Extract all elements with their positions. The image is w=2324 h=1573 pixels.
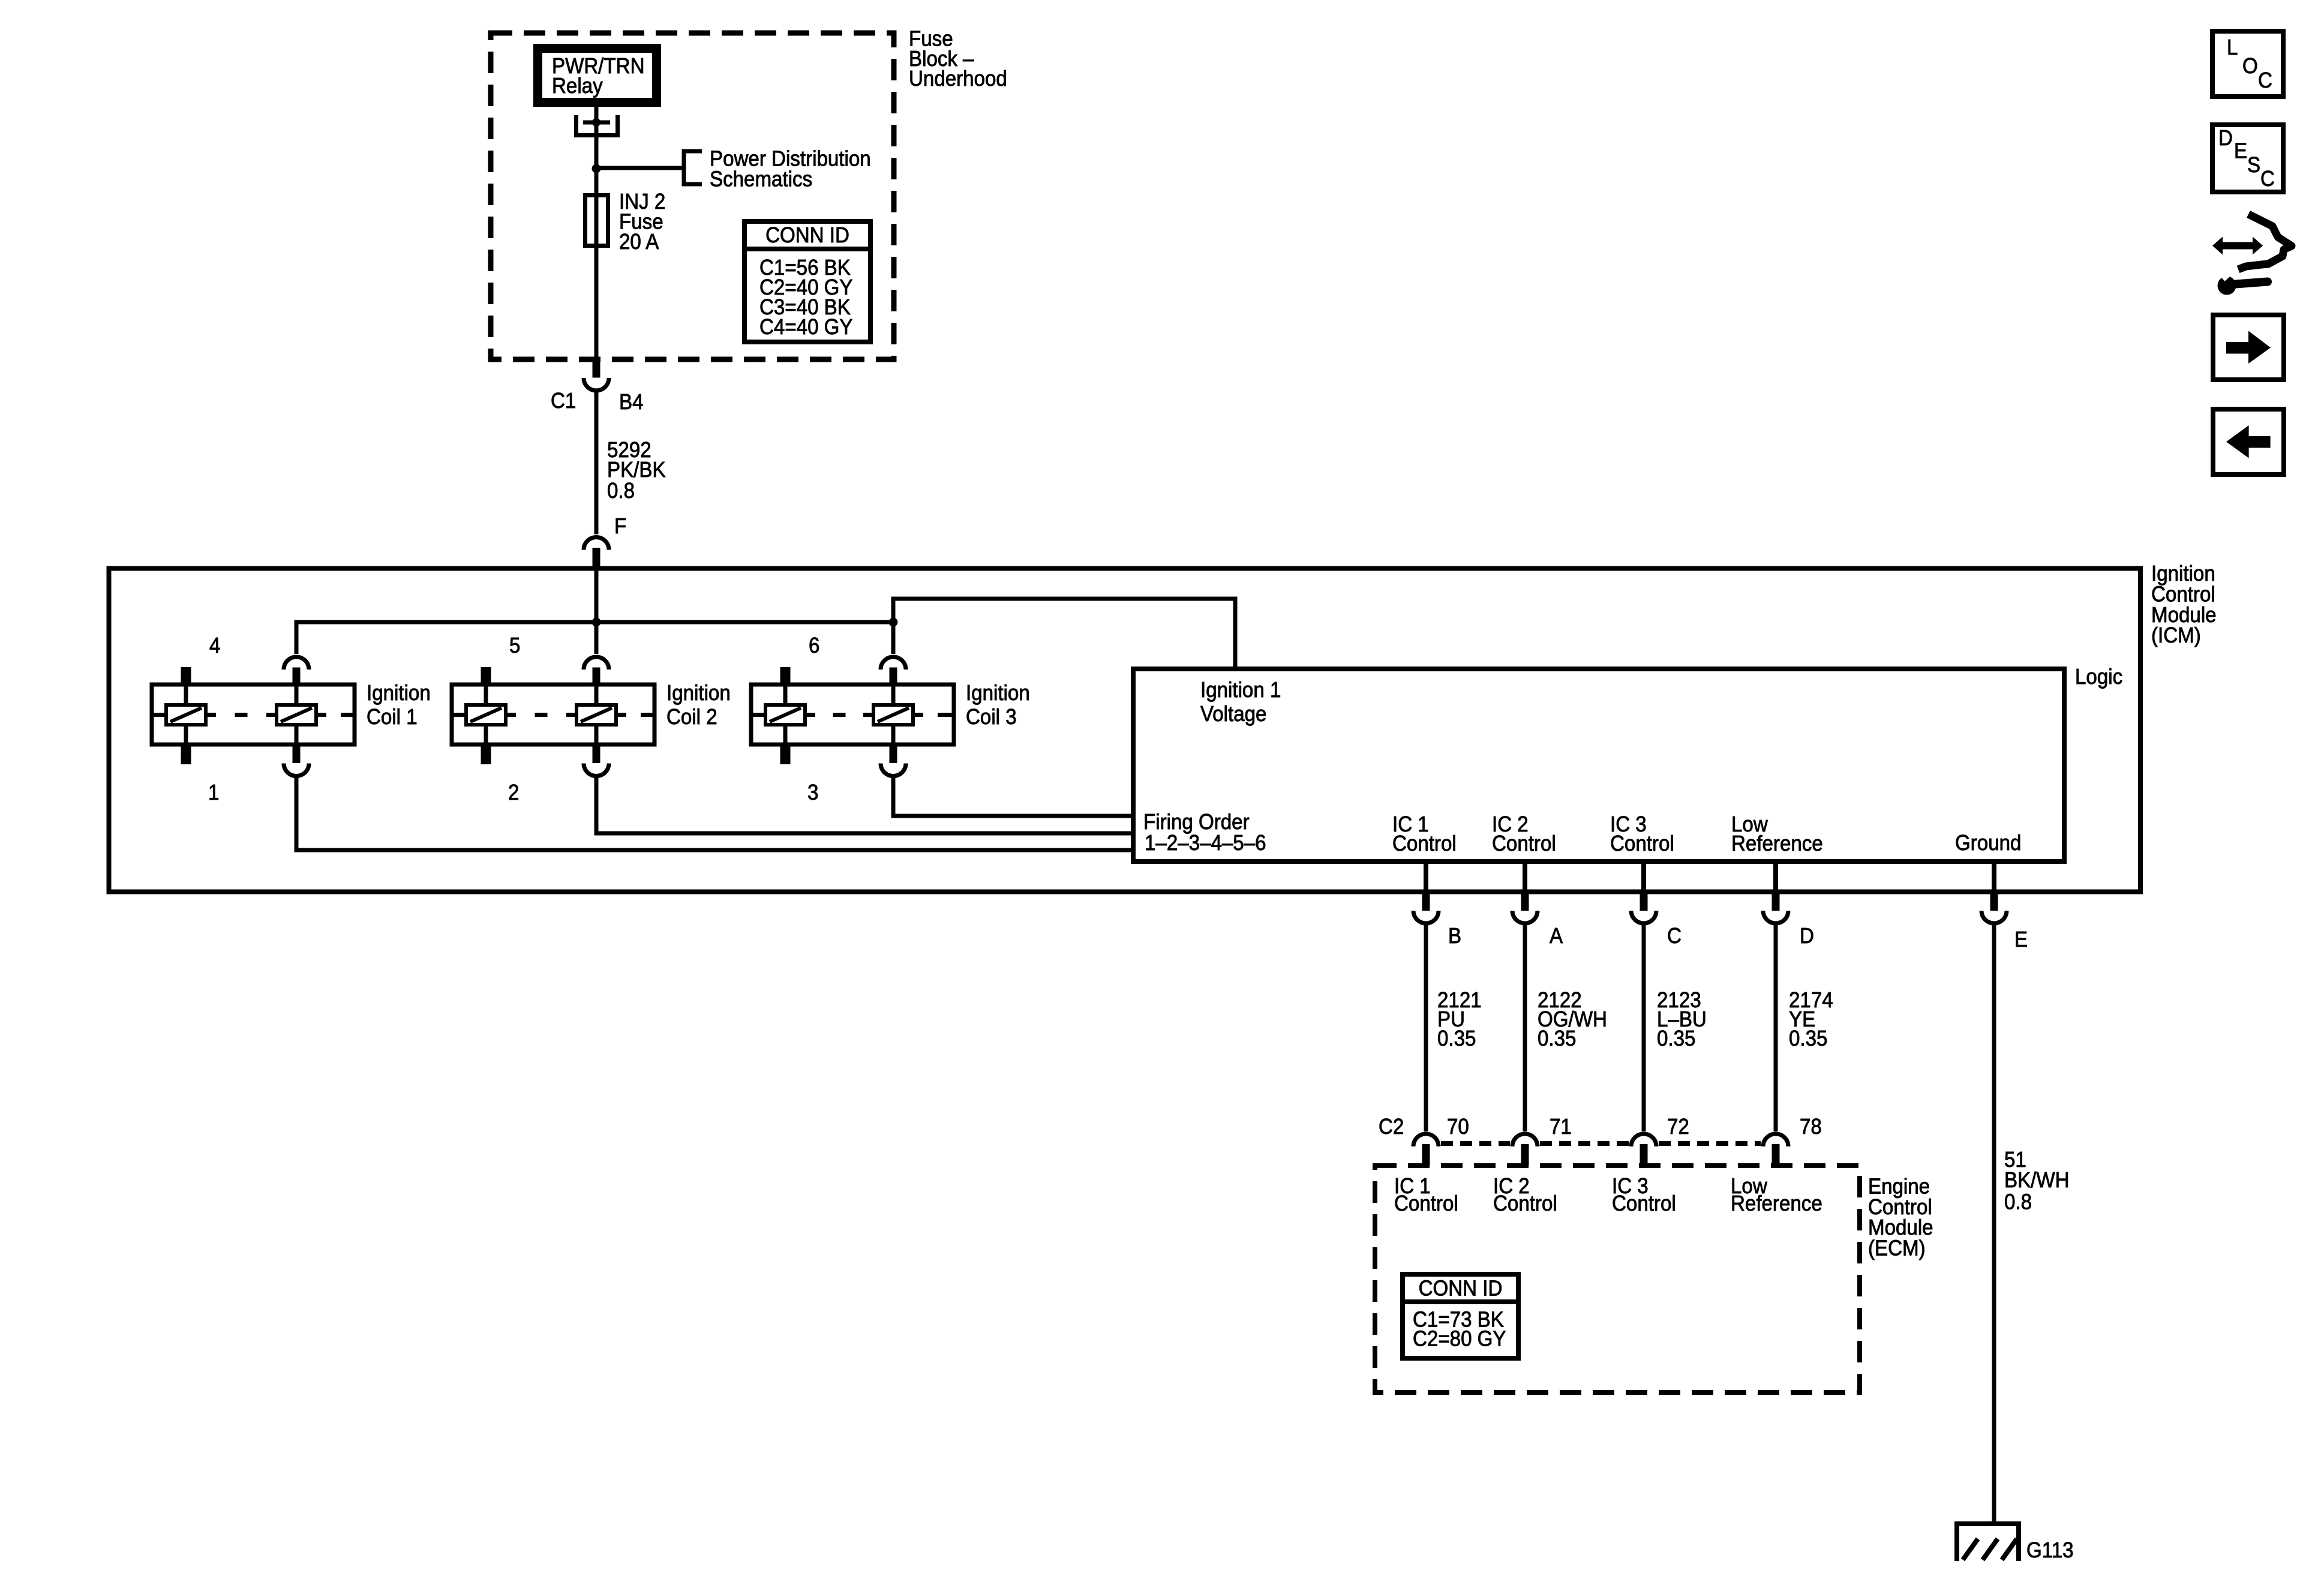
svg-text:Ignition: Ignition [367, 682, 431, 706]
svg-text:C: C [2258, 69, 2272, 93]
svg-text:PK/BK: PK/BK [607, 458, 666, 482]
svg-text:0.35: 0.35 [1657, 1027, 1695, 1051]
svg-text:Voltage: Voltage [1200, 703, 1266, 727]
svg-text:Control: Control [1612, 1192, 1676, 1216]
svg-text:6: 6 [809, 634, 819, 658]
svg-text:Underhood: Underhood [909, 67, 1007, 91]
svg-text:72: 72 [1667, 1115, 1689, 1139]
svg-text:E: E [2014, 928, 2028, 952]
svg-text:Coil 2: Coil 2 [666, 706, 717, 730]
svg-text:0.35: 0.35 [1789, 1027, 1827, 1051]
svg-text:O: O [2242, 55, 2258, 79]
svg-text:Firing Order: Firing Order [1143, 810, 1250, 834]
svg-text:S: S [2247, 154, 2260, 178]
svg-text:Reference: Reference [1731, 1192, 1822, 1216]
svg-text:Control: Control [1392, 832, 1457, 856]
svg-text:D: D [1800, 924, 1814, 948]
svg-text:G113: G113 [2026, 1539, 2074, 1563]
svg-text:(ICM): (ICM) [2151, 624, 2201, 648]
svg-text:2: 2 [508, 781, 519, 805]
svg-text:4: 4 [209, 634, 220, 658]
svg-text:CONN ID: CONN ID [1419, 1277, 1503, 1301]
svg-text:B4: B4 [619, 391, 643, 415]
svg-text:F: F [614, 515, 626, 539]
svg-text:Control: Control [1492, 832, 1556, 856]
svg-text:0.35: 0.35 [1437, 1027, 1476, 1051]
svg-text:Schematics: Schematics [710, 167, 812, 191]
svg-text:Ignition: Ignition [966, 682, 1030, 706]
svg-text:1–2–3–4–5–6: 1–2–3–4–5–6 [1145, 831, 1266, 855]
svg-text:20 A: 20 A [619, 230, 659, 254]
svg-text:1: 1 [208, 781, 219, 805]
svg-text:0.35: 0.35 [1538, 1027, 1576, 1051]
svg-text:Ground: Ground [1955, 831, 2021, 855]
svg-text:Logic: Logic [2075, 665, 2122, 689]
svg-text:5: 5 [509, 634, 520, 658]
svg-text:CONN ID: CONN ID [765, 224, 849, 248]
svg-text:C1: C1 [551, 389, 576, 413]
svg-text:C2: C2 [1379, 1115, 1404, 1139]
svg-text:70: 70 [1447, 1115, 1469, 1139]
svg-text:A: A [1550, 924, 1563, 948]
svg-text:C: C [1667, 924, 1682, 948]
svg-text:Reference: Reference [1731, 832, 1823, 856]
svg-text:Control: Control [1493, 1192, 1557, 1216]
svg-text:(ECM): (ECM) [1868, 1236, 1926, 1260]
svg-text:Control: Control [1394, 1192, 1458, 1216]
svg-text:L: L [2227, 36, 2238, 60]
svg-text:B: B [1448, 924, 1461, 948]
svg-text:78: 78 [1800, 1115, 1822, 1139]
svg-text:0.8: 0.8 [607, 479, 635, 503]
svg-text:Control: Control [1610, 832, 1674, 856]
svg-text:C: C [2260, 167, 2275, 191]
svg-text:Coil 3: Coil 3 [966, 706, 1017, 730]
svg-text:3: 3 [807, 781, 818, 805]
svg-text:0.8: 0.8 [2004, 1190, 2032, 1214]
svg-text:C4=40 GY: C4=40 GY [759, 316, 853, 340]
svg-text:Relay: Relay [552, 74, 603, 98]
svg-text:Ignition: Ignition [666, 682, 731, 706]
svg-text:BK/WH: BK/WH [2004, 1169, 2070, 1193]
svg-text:D: D [2218, 127, 2233, 151]
svg-text:Coil 1: Coil 1 [367, 706, 418, 730]
svg-text:E: E [2234, 139, 2247, 163]
svg-text:C2=80 GY: C2=80 GY [1413, 1327, 1506, 1351]
svg-text:71: 71 [1550, 1115, 1572, 1139]
svg-text:Ignition 1: Ignition 1 [1200, 679, 1281, 703]
